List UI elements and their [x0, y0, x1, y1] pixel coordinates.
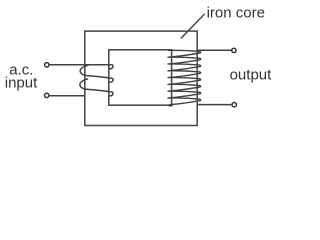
svg-text:output: output — [230, 67, 273, 84]
terminal: output top — [232, 48, 236, 52]
primary coil P1 turn 3 left arc — [80, 79, 111, 92]
wire: output top lead — [198, 49, 231, 51]
wire: output bottom lead — [198, 104, 231, 106]
iron core inner outline — [109, 50, 172, 105]
primary coil P1 turn 2 hook — [109, 78, 113, 82]
terminal: a.c. input bottom — [45, 93, 49, 97]
terminal: output bottom — [232, 103, 236, 107]
primary coil P1 turn 1 hook — [109, 65, 113, 69]
secondary coil S1 — [168, 50, 201, 106]
iron core outer outline — [85, 31, 197, 125]
primary coil P1 turn 2 left arc — [80, 65, 111, 78]
svg-text:input: input — [5, 75, 38, 92]
wire: a.c. input bottom lead — [50, 95, 85, 97]
primary coil P1 turn 3 hook — [109, 92, 113, 96]
terminal: a.c. input top — [45, 63, 49, 67]
wire: a.c. input top lead — [50, 64, 112, 66]
svg-text:iron core: iron core — [207, 5, 265, 22]
iron core pointer line — [181, 14, 205, 38]
